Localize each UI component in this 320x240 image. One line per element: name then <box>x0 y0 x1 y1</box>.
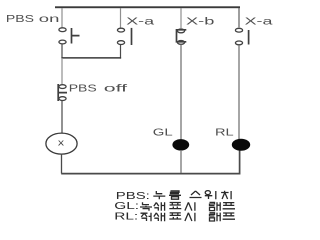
wire X-a2 to RL lamp <box>238 45 240 139</box>
relay contact X-b terminal top <box>177 29 184 33</box>
svg-text:RL:: RL: <box>114 210 138 222</box>
wire X-b to GL lamp <box>180 44 182 139</box>
relay contact X-a2 moving bar <box>248 30 250 45</box>
램 <box>210 213 221 222</box>
relay contact X-b terminal bottom <box>177 41 184 45</box>
램 <box>210 202 221 211</box>
wire bus to right X-a contact <box>238 8 240 27</box>
적 <box>141 213 152 222</box>
치 <box>221 191 231 200</box>
름 <box>169 191 181 199</box>
프 <box>223 213 235 219</box>
프 <box>223 203 235 209</box>
pushbutton PBS-on contact terminal top <box>59 28 66 32</box>
wire junction horizontal <box>61 57 121 59</box>
relay contact X-a2 terminal bottom <box>235 41 242 45</box>
svg-text:PBS: PBS <box>69 82 97 94</box>
svg-text:RL: RL <box>215 127 234 138</box>
위 <box>205 191 216 200</box>
표 <box>169 213 181 219</box>
표 <box>169 203 181 209</box>
legend line 1 hangul: 누름 스위치 <box>153 191 231 200</box>
svg-text:X-b: X-b <box>186 16 214 27</box>
relay contact X-a terminal bottom <box>117 41 124 45</box>
lamp GL <box>172 139 189 150</box>
relay contact X-b moving bar (NC bracket) <box>177 30 187 42</box>
pushbutton PBS-off contact terminal bottom <box>59 97 66 101</box>
relay contact X-a terminal top <box>117 28 124 32</box>
색 <box>154 213 165 222</box>
svg-text:x: x <box>58 138 65 148</box>
wire GL lamp to bottom bus <box>180 150 182 173</box>
legend line 3 hangul: 적색표시 램프 <box>141 213 236 222</box>
svg-text:X-a: X-a <box>245 16 274 27</box>
svg-text:GL: GL <box>153 126 173 138</box>
pushbutton PBS-off contact terminal top <box>59 85 66 89</box>
relay contact X-a moving bar <box>131 28 133 45</box>
wire coil to bottom bus <box>61 154 63 174</box>
색 <box>154 202 165 211</box>
녹 <box>140 202 152 211</box>
pushbutton PBS-off moving bar <box>58 84 67 101</box>
relay contact X-a2 terminal top <box>235 28 242 32</box>
svg-text:on: on <box>39 13 60 25</box>
스 <box>190 191 202 198</box>
svg-text:PBS: PBS <box>6 13 34 25</box>
svg-text:off: off <box>104 82 128 94</box>
wire bus to X-a contact <box>120 8 122 28</box>
relay coil X <box>46 133 77 154</box>
시 <box>185 213 195 222</box>
wire bus to X-b contact <box>180 8 182 28</box>
svg-text:X-a: X-a <box>126 16 155 27</box>
legend line 2 hangul: 녹색표시 램프 <box>140 202 235 211</box>
wire junction to PBS-off <box>61 58 63 84</box>
wire X-a to junction <box>120 45 122 59</box>
pushbutton PBS-on moving bar <box>72 28 80 44</box>
wire bus to PBS-on contact <box>61 8 63 27</box>
wire PBS-off to coil <box>61 101 63 134</box>
bottom return bus <box>61 150 239 174</box>
pushbutton PBS-on contact terminal bottom <box>59 40 66 44</box>
wire PBS-on to junction <box>61 44 63 58</box>
top supply bus <box>55 6 240 8</box>
시 <box>185 202 195 211</box>
누 <box>153 191 165 199</box>
lamp RL <box>232 139 250 151</box>
